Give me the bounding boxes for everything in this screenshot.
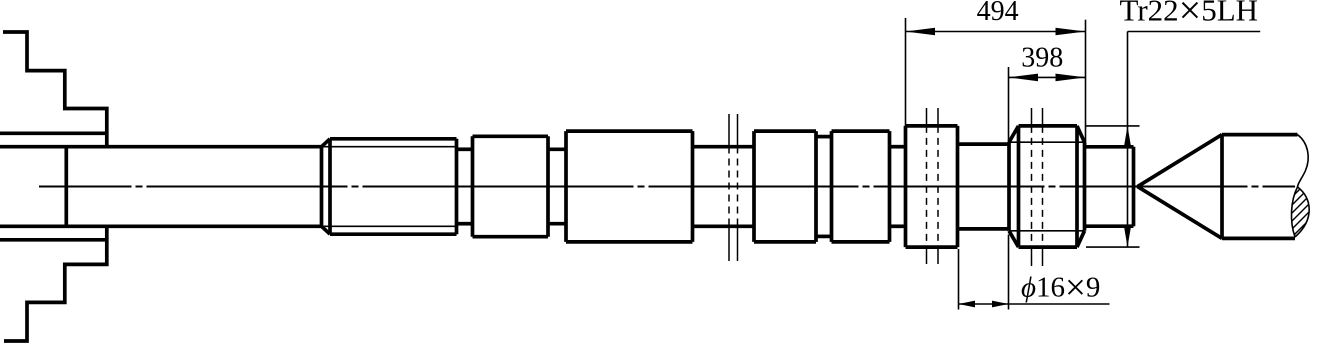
- svg-text:494: 494: [977, 0, 1019, 27]
- svg-text:ϕ16×9: ϕ16×9: [1021, 267, 1100, 308]
- svg-text:398: 398: [1021, 43, 1063, 74]
